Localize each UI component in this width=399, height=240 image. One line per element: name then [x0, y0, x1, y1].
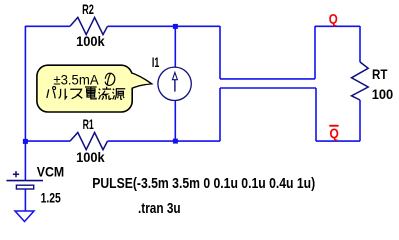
katakana PA: [47, 89, 49, 98]
resistor R1: [70, 116, 108, 165]
svg-text:RT: RT: [372, 66, 388, 82]
wire VCM to ground: [24, 189, 26, 211]
wire I1 top lead: [174, 26, 176, 68]
katakana RU: [59, 89, 61, 98]
ground: [15, 211, 34, 222]
wire corner down at x=220 (Q net step): [219, 26, 221, 79]
svg-text:I1: I1: [152, 54, 160, 70]
node junction top (I1 top / R2): [173, 24, 178, 29]
current source I1: [152, 54, 191, 101]
long plate: [6, 180, 43, 182]
svg-text:100: 100: [372, 86, 394, 102]
resistor R2: [70, 1, 108, 49]
kanji GEN (source): [113, 89, 115, 100]
wire top rail left segment: [25, 25, 70, 27]
svg-text:±3.5mA: ±3.5mA: [53, 72, 98, 87]
kanji RYU (flow): [99, 89, 101, 100]
voltage source VCM (battery): [6, 164, 64, 206]
wire bottom rail left of R1: [25, 140, 70, 142]
wire Qbar step down at x=220: [219, 88, 221, 141]
wire RT bottom lead: [359, 100, 361, 141]
svg-text:R2: R2: [82, 1, 94, 17]
wire bottom rail right of R1: [108, 140, 221, 142]
wire Q net lower horizontal: [220, 78, 315, 80]
wire top rail right of R2 to corner: [108, 25, 221, 27]
katakana SU: [70, 89, 81, 99]
wire left vertical rail: [24, 26, 26, 181]
svg-text:1.25: 1.25: [41, 190, 61, 206]
svg-text:100k: 100k: [76, 149, 105, 165]
svg-text:Q: Q: [330, 125, 339, 141]
callout text line 2: パルス電流源 (drawn glyphs): [47, 87, 125, 100]
resistor RT: [352, 62, 394, 102]
callout text line 1: ±3.5mA の: [53, 72, 114, 87]
wire RT top lead: [359, 26, 361, 62]
wire Q net step up at x=315: [314, 26, 316, 79]
callout bubble (yellow annotation): [37, 65, 152, 112]
wire Qbar net step up at x=316: [315, 88, 317, 141]
plus sign: [13, 171, 19, 177]
wire Qbar net upper horizontal: [220, 87, 316, 89]
svg-text:100k: 100k: [76, 33, 105, 49]
kanji DEN (electric): [85, 86, 97, 88]
node label Qbar (red, with overline): [329, 125, 339, 141]
svg-text:R1: R1: [83, 116, 94, 132]
svg-text:.tran 3u: .tran 3u: [138, 200, 181, 217]
wire Q net top right to RT: [315, 25, 360, 27]
svg-text:VCM: VCM: [37, 164, 64, 180]
svg-text:Q: Q: [329, 10, 338, 26]
svg-text:PULSE(-3.5m 3.5m 0 0.1u 0.1u 0: PULSE(-3.5m 3.5m 0 0.1u 0.1u 0.4u 1u): [92, 175, 315, 192]
wire Qbar net bottom right horizontal: [316, 140, 360, 142]
wire I1 bottom lead: [174, 100, 176, 141]
node junction left (R1 / VCM): [23, 139, 28, 144]
hiragana NO: [107, 74, 110, 86]
short plate box: [16, 185, 33, 189]
node junction bottom (I1 bottom / rail): [173, 139, 178, 144]
